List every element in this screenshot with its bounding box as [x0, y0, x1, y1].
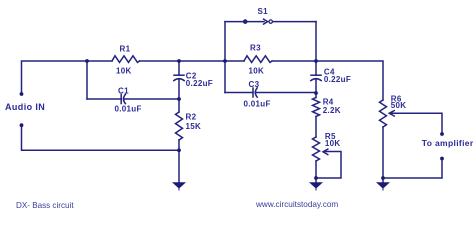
- node: R6 bottom junction: [381, 176, 385, 180]
- svg-text:0.22uF: 0.22uF: [324, 75, 351, 84]
- svg-text:0.01uF: 0.01uF: [244, 100, 271, 109]
- wire: R5 bottom to ground: [315, 178, 317, 183]
- wire: R1 right lead to node C2: [140, 60, 180, 62]
- svg-text:50K: 50K: [391, 101, 407, 110]
- wire: S1 box right vertical: [315, 22, 317, 61]
- node: S1 box left junction: [223, 59, 227, 63]
- svg-text:R1: R1: [120, 45, 131, 54]
- svg-text:10K: 10K: [325, 139, 341, 148]
- wire: S1 left lead: [225, 21, 243, 23]
- capacitor C4: [311, 75, 321, 80]
- wire: C2 bottom to node C1: [178, 79, 180, 99]
- svg-text:To amplifier: To amplifier: [422, 138, 474, 148]
- svg-text:10K: 10K: [249, 67, 265, 76]
- svg-text:DX- Bass circuit: DX- Bass circuit: [16, 201, 74, 210]
- svg-text:R2: R2: [186, 113, 197, 122]
- svg-text:0.22uF: 0.22uF: [186, 79, 213, 88]
- wire: main rail R1 left lead: [87, 60, 112, 62]
- resistor R4: [313, 93, 320, 117]
- wire: R4 to R5: [315, 117, 317, 138]
- resistor R6 (potentiometer): [380, 100, 387, 178]
- svg-text:C1: C1: [118, 87, 129, 96]
- wire: Audio IN top terminal up to main rail: [22, 61, 88, 94]
- wire: node C2 to node S1-left: [179, 60, 225, 62]
- switch S1: [244, 19, 273, 24]
- wire: S1 box left vertical: [224, 22, 226, 93]
- svg-text:15K: 15K: [186, 122, 202, 131]
- wire: node C4 top: [315, 61, 317, 75]
- node: amplifier top terminal: [440, 132, 444, 136]
- svg-text:S1: S1: [258, 7, 269, 16]
- node: R1 right / C2 junction: [177, 59, 181, 63]
- node: R2 bottom junction: [177, 148, 181, 152]
- wire: C1 right lead to node: [124, 98, 179, 100]
- wire: Audio IN bottom terminal down and right to R2 bottom node: [22, 126, 180, 151]
- wire: C3 right lead to R4 node: [255, 92, 316, 94]
- node: amplifier bottom terminal: [440, 157, 444, 161]
- capacitor C3: [253, 88, 257, 97]
- capacitor C2: [174, 75, 184, 80]
- wire: C3 left lead from box vertical: [225, 92, 253, 94]
- node: C1/C2/R2 junction: [177, 97, 181, 101]
- resistor R5 (rheostat): [313, 137, 320, 178]
- node: R5 bottom junction: [314, 176, 318, 180]
- ground (R6): [377, 183, 388, 191]
- wire: R3 right lead to node C4: [272, 60, 316, 62]
- wire: R6 bottom to ground: [382, 178, 384, 183]
- svg-text:Audio IN: Audio IN: [5, 102, 45, 112]
- wire: R5 wiper arm loop to bottom: [316, 152, 341, 179]
- wire: C4 bottom to R4 node: [315, 79, 317, 93]
- wire: output rail to R6 top: [316, 61, 383, 100]
- wire: S1 right lead: [273, 21, 316, 23]
- wire: R6 wiper to amplifier top terminal: [391, 113, 442, 134]
- svg-text:C3: C3: [249, 80, 260, 89]
- resistor R1: [112, 56, 140, 63]
- resistor R2: [176, 99, 183, 150]
- svg-text:www.circuitstoday.com: www.circuitstoday.com: [255, 200, 338, 209]
- wire: node to C2 top plate: [178, 61, 180, 75]
- svg-text:2.2K: 2.2K: [323, 106, 341, 115]
- wire: R3 left lead: [225, 60, 244, 62]
- node: R3 right / C4 junction: [314, 59, 318, 63]
- svg-text:0.01uF: 0.01uF: [115, 105, 142, 114]
- svg-text:R3: R3: [250, 44, 261, 53]
- wire: amplifier bottom terminal to R6 bottom node: [383, 159, 442, 179]
- ground (R2): [173, 183, 184, 191]
- node: Audio IN top terminal: [20, 92, 24, 96]
- svg-text:10K: 10K: [116, 67, 132, 76]
- capacitor C1: [121, 94, 125, 103]
- wire: C1 branch left vertical from R1 left node: [86, 61, 88, 99]
- node: Audio IN bottom terminal: [20, 123, 24, 127]
- wiper arrow R5: [323, 149, 328, 155]
- resistor R3: [244, 56, 272, 63]
- wire: C1 left lead: [87, 98, 121, 100]
- wire: R2 bottom node to ground: [178, 150, 180, 183]
- node: R1 left junction: [85, 59, 89, 63]
- node: C3/C4/R4 junction: [314, 91, 318, 95]
- wiper arrow R6: [389, 111, 394, 116]
- ground (R5): [310, 183, 321, 191]
